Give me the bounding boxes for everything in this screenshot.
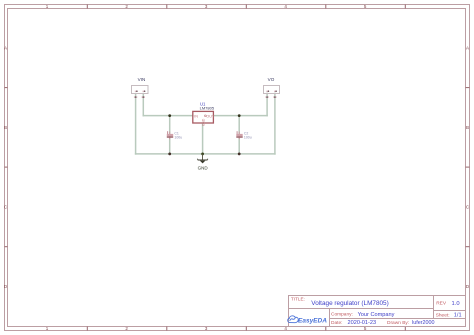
svg-text:Company:: Company:	[331, 312, 353, 318]
svg-text:Sheet:: Sheet:	[436, 313, 450, 319]
svg-text:IN: IN	[194, 114, 198, 118]
svg-text:B: B	[4, 125, 7, 130]
svg-text:LM7805: LM7805	[200, 105, 215, 110]
svg-text:1/1: 1/1	[454, 313, 462, 319]
svg-text:B: B	[466, 125, 469, 130]
svg-text:GND: GND	[198, 165, 209, 170]
svg-text:100u: 100u	[244, 135, 252, 139]
svg-text:Drawn By:: Drawn By:	[387, 320, 409, 326]
svg-text:A: A	[466, 45, 469, 50]
svg-text:VO: VO	[268, 77, 275, 82]
svg-text:1.0: 1.0	[452, 301, 460, 307]
svg-text:VIN: VIN	[138, 77, 146, 82]
svg-text:100u: 100u	[174, 135, 182, 139]
svg-text:Date:: Date:	[331, 320, 342, 326]
svg-text:Your Company: Your Company	[358, 312, 395, 318]
svg-text:A: A	[4, 45, 7, 50]
svg-text:EasyEDA: EasyEDA	[298, 317, 327, 324]
svg-text:2020-01-23: 2020-01-23	[348, 320, 377, 326]
svg-text:lufer2000: lufer2000	[412, 320, 434, 326]
svg-text:TITLE:: TITLE:	[291, 296, 305, 301]
svg-text:OUT: OUT	[206, 114, 215, 118]
svg-text:REV: REV	[436, 301, 447, 307]
svg-text:Voltage regulator (LM7805): Voltage regulator (LM7805)	[311, 300, 388, 307]
svg-text:GND: GND	[201, 118, 205, 126]
